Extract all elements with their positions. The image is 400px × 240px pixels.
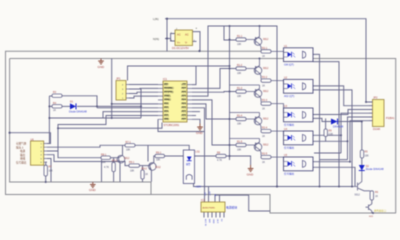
svg-text:蜂鸣器接口: 蜂鸣器接口 [374,209,387,213]
svg-text:P1.6: P1.6 [181,92,186,94]
svg-text:VCC: VCC [181,84,186,86]
svg-text:JP2: JP2 [373,96,378,100]
svg-text:信号输出: 信号输出 [284,146,295,150]
svg-text:GND: GND [98,65,106,69]
svg-text:R2-4: R2-4 [262,127,268,130]
svg-text:1K: 1K [262,84,265,87]
svg-text:L(IN): L(IN) [153,18,159,21]
svg-text:GND: GND [89,188,97,192]
svg-text:N(IN): N(IN) [153,38,159,41]
svg-text:XTAL1: XTAL1 [164,95,172,98]
svg-text:R2-3: R2-3 [262,99,268,102]
svg-text:ACC IN: ACC IN [204,219,207,226]
svg-text:电源: 电源 [20,149,26,153]
svg-text:P3.7: P3.7 [181,119,186,121]
svg-text:10K: 10K [237,149,242,152]
svg-text:9012: 9012 [263,90,269,93]
svg-text:10K: 10K [49,170,54,173]
svg-text:AS/M-PWR5: AS/M-PWR5 [203,207,216,210]
svg-text:GND: GND [247,173,255,177]
svg-text:R1-4: R1-4 [237,115,243,118]
svg-text:GM (QT): GM (QT) [284,63,294,66]
svg-text:9012: 9012 [124,157,130,160]
svg-text:9012: 9012 [263,118,269,121]
svg-text:R2-1: R2-1 [262,47,268,50]
svg-text:R9-2: R9-2 [142,167,148,170]
svg-text:P1.1: P1.1 [181,111,186,113]
svg-text:信号输出: 信号输出 [284,123,295,127]
svg-text:9012: 9012 [155,166,161,169]
svg-text:探头.1: 探头.1 [16,145,24,149]
svg-text:1K: 1K [145,173,148,176]
svg-text:10K: 10K [237,123,242,126]
svg-text:10K: 10K [237,43,242,46]
svg-text:A02 (QT): A02 (QT) [284,95,294,98]
svg-text:地线: 地线 [20,157,26,161]
svg-text:+12V: +12V [210,191,212,196]
svg-text:V+: V+ [177,41,181,45]
svg-text:+: + [196,26,198,30]
svg-text:信号输出: 信号输出 [284,172,295,176]
svg-text:10K: 10K [237,72,242,75]
svg-text:ALE: ALE [208,219,211,223]
svg-text:10K: 10K [156,158,161,161]
svg-text:P3.1/TxD: P3.1/TxD [164,92,174,94]
svg-text:Diode DIN4148: Diode DIN4148 [69,110,87,114]
svg-text:R9-1: R9-1 [129,161,135,164]
svg-text:R1-2: R1-2 [237,64,243,67]
svg-text:IC1: IC1 [163,77,168,81]
svg-text:LS1: LS1 [196,151,201,154]
svg-text:输出: 输出 [20,153,26,157]
svg-text:P3.5: P3.5 [164,115,169,117]
svg-text:R2-5: R2-5 [262,153,268,156]
svg-text:V-: V- [185,41,188,45]
svg-text:R1-5: R1-5 [237,141,243,144]
svg-text:GND: GND [212,219,214,224]
svg-text:10K: 10K [237,95,242,98]
svg-text:R7-1: R7-1 [126,141,132,144]
svg-text:GND: GND [196,131,204,135]
svg-text:P3.2: P3.2 [164,104,169,106]
svg-text:STC89C2051: STC89C2051 [164,123,180,127]
svg-text:信号输出: 信号输出 [16,161,27,165]
svg-text:AC: AC [185,33,189,37]
svg-text:P1.0: P1.0 [181,115,186,117]
svg-text:DIN4148: DIN4148 [333,125,344,129]
svg-text:10K: 10K [102,161,107,164]
svg-text:IC2: IC2 [201,198,206,202]
svg-text:P2(BA): P2(BA) [386,116,394,120]
svg-text:R1-1: R1-1 [237,35,243,38]
svg-text:Diode DIN4148: Diode DIN4148 [366,167,384,171]
svg-text:4.7K: 4.7K [104,166,109,169]
svg-text:可燃气体: 可燃气体 [16,142,27,146]
svg-text:9012: 9012 [263,67,269,70]
svg-text:R6-1: R6-1 [156,152,162,155]
svg-text:P3.4: P3.4 [164,111,169,113]
svg-text:9012: 9012 [355,194,361,197]
svg-text:RST: RST [164,84,169,86]
svg-text:P1.5: P1.5 [181,96,186,98]
svg-text:P1.2: P1.2 [181,108,186,110]
svg-text:AC: AC [177,33,181,37]
svg-text:R2-2: R2-2 [262,76,268,79]
svg-text:1K: 1K [262,107,265,110]
svg-text:P3.3: P3.3 [164,108,169,110]
svg-text:P1.3: P1.3 [181,104,186,106]
svg-text:DUHK: DUHK [373,127,381,131]
svg-text:10K: 10K [126,149,131,152]
svg-text:R8-1: R8-1 [101,153,107,156]
svg-text:1K: 1K [262,161,265,164]
svg-text:JP1: JP1 [116,77,121,81]
svg-text:9012: 9012 [263,144,269,147]
svg-text:R1-3: R1-3 [237,87,243,90]
svg-text:4.7K: 4.7K [217,159,222,162]
svg-text:10K: 10K [365,155,370,158]
svg-text:XTAL2: XTAL2 [164,99,172,102]
svg-text:P1.7: P1.7 [181,88,186,90]
svg-text:P3.0/RxD: P3.0/RxD [164,88,174,90]
svg-text:GND: GND [164,119,169,121]
svg-text:10K: 10K [130,169,135,172]
svg-text:电源模块: 电源模块 [226,206,237,210]
svg-text:+12V: +12V [195,184,201,188]
svg-text:C05: C05 [329,133,334,136]
svg-text:1K: 1K [262,135,265,138]
svg-text:1K: 1K [375,195,378,198]
svg-text:1K: 1K [53,109,56,112]
svg-text:9012: 9012 [263,38,269,41]
svg-text:P1.4: P1.4 [181,100,186,102]
svg-text:DC-DC12V/5V: DC-DC12V/5V [172,46,189,50]
svg-text:1K: 1K [262,55,265,58]
